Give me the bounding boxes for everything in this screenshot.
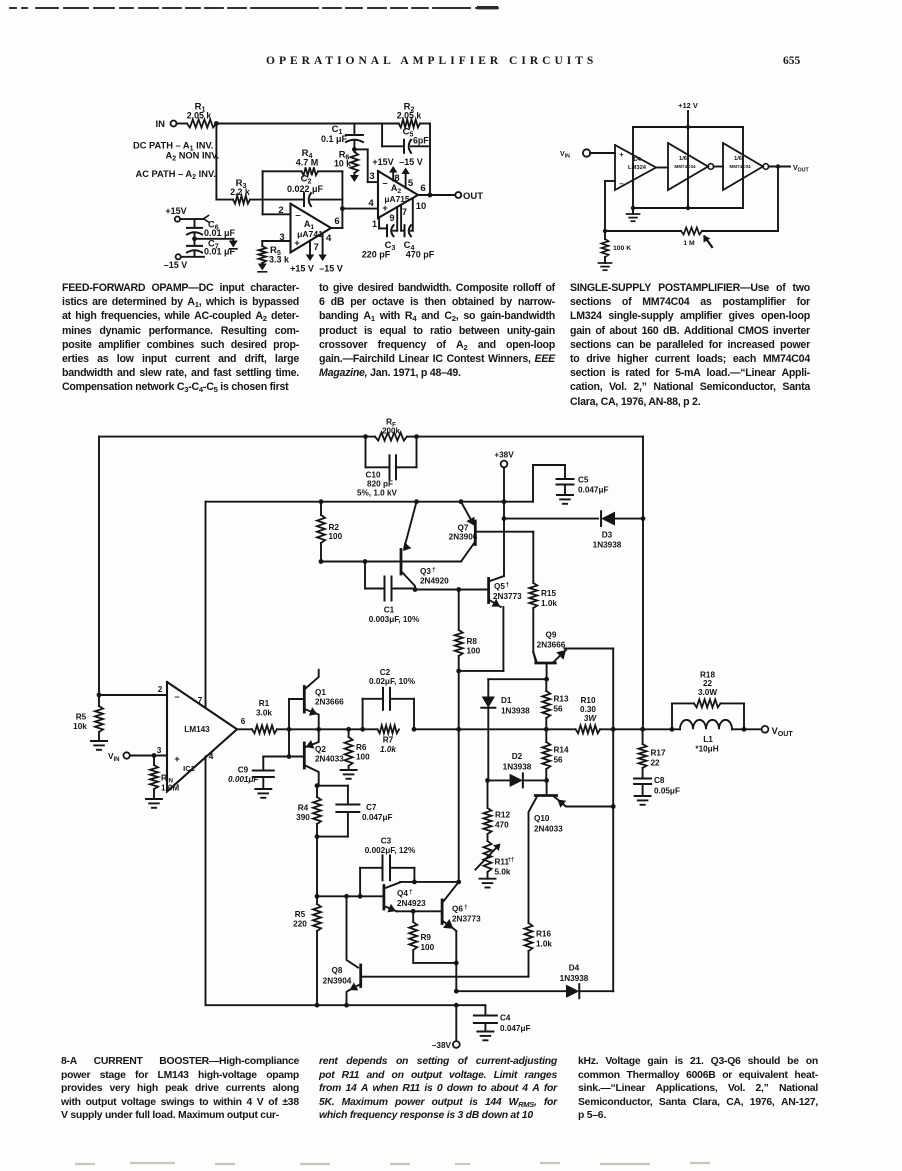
- svg-text:R12: R12: [495, 811, 510, 820]
- svg-text:R1: R1: [259, 699, 270, 708]
- svg-text:1/6: 1/6: [734, 156, 743, 162]
- svg-text:2N3904: 2N3904: [323, 977, 352, 986]
- svg-text:VIN​: VIN​: [560, 151, 570, 160]
- resistor R14 56: [545, 729, 547, 742]
- svg-text:3: 3: [369, 171, 374, 182]
- node +12V on top rail: [686, 125, 690, 129]
- svg-text:0.047μF: 0.047μF: [578, 486, 609, 495]
- svg-text:C5​: C5​: [403, 127, 414, 139]
- arrow tick on +15V wire: [204, 216, 209, 223]
- output line to L1: [643, 728, 672, 730]
- transistor Q3 2N4920: [400, 550, 403, 575]
- svg-text:6: 6: [241, 717, 246, 726]
- node D1 D2 R12: [485, 778, 490, 783]
- wire C1 node to A2 pin3: [354, 148, 367, 150]
- resistor R16 1.0k: [525, 923, 533, 951]
- svg-text:–38V: –38V: [432, 1041, 452, 1050]
- ground arrow below R5: [261, 263, 263, 264]
- resistor R2 100: [320, 502, 322, 515]
- wire to VOUT: [744, 728, 762, 730]
- node collector row column: [456, 880, 461, 885]
- resistor R9 100: [412, 911, 414, 922]
- svg-text:10: 10: [416, 201, 427, 212]
- wire VIN to pin3: [130, 755, 167, 757]
- svg-text:C7: C7: [366, 803, 377, 812]
- svg-text:1/6: 1/6: [679, 156, 688, 162]
- transistor Q2 2N4033: [303, 743, 306, 768]
- svg-text:C3: C3: [381, 837, 392, 846]
- svg-text:†: †: [464, 904, 468, 911]
- resistor R13 56: [545, 679, 547, 691]
- wire D1 row: [488, 678, 546, 680]
- feedback wire bottom: [702, 230, 778, 232]
- pin 7 column to rail: [205, 502, 207, 708]
- node Q10 emitter column: [611, 804, 616, 809]
- node R8 column output: [456, 727, 461, 732]
- svg-text:220: 220: [293, 920, 307, 929]
- svg-text:56: 56: [554, 756, 564, 765]
- node Q8 emitter rail: [344, 1003, 349, 1008]
- node rail Q7 emitter: [459, 499, 464, 504]
- feedback right column upper: [642, 437, 644, 519]
- svg-text:*10μH: *10μH: [695, 745, 718, 754]
- capacitor C4 0.047uF: [456, 1004, 485, 1006]
- wire Vin to op-amp: [590, 152, 615, 154]
- node C3 right: [412, 880, 417, 885]
- pin 1 leg of A2: [378, 218, 380, 229]
- svg-text:R6: R6: [356, 743, 367, 752]
- capacitor C7 0.047uF loop: [317, 785, 348, 787]
- svg-text:0.001μF: 0.001μF: [228, 775, 259, 784]
- svg-text:100: 100: [467, 647, 481, 656]
- node bottom rail left: [631, 206, 635, 210]
- node Q6 emitter R9: [454, 961, 459, 966]
- node rail R2: [319, 499, 324, 504]
- wire D4 row: [456, 990, 566, 992]
- svg-text:OUT: OUT: [463, 191, 483, 202]
- svg-text:4: 4: [368, 198, 374, 209]
- wire +15V: [180, 218, 204, 220]
- wire C2 to feedback right: [311, 199, 342, 201]
- supply terminal -38V: [455, 1005, 457, 1041]
- node L1 right: [742, 727, 747, 732]
- svg-text:Q10: Q10: [534, 814, 550, 823]
- pin 3 input wire: [262, 240, 290, 242]
- wire emitter node to D4 node: [455, 963, 457, 991]
- ground symbol below rail: [632, 208, 634, 214]
- wire R4 to base row: [316, 837, 318, 897]
- svg-text:Q7: Q7: [458, 524, 469, 533]
- resistor R5 10k input: [98, 695, 100, 706]
- svg-text:L1: L1: [703, 735, 713, 744]
- capacitor C3 220pF: [386, 225, 388, 236]
- svg-text:1 M: 1 M: [683, 240, 695, 247]
- wire +12V down: [687, 111, 689, 127]
- supply terminal -15V: [176, 254, 181, 259]
- wire opamp to inverter1: [656, 167, 668, 169]
- svg-text:56: 56: [554, 705, 564, 714]
- svg-text:R5: R5: [76, 713, 87, 722]
- wire to R2: [382, 123, 399, 125]
- svg-text:–: –: [619, 179, 623, 188]
- pin 4 column to bottom rail: [205, 757, 207, 1006]
- svg-text:6: 6: [334, 216, 339, 227]
- svg-text:4.7 M: 4.7 M: [296, 158, 319, 168]
- svg-text:0.047μF: 0.047μF: [362, 813, 393, 822]
- svg-text:+15 V: +15 V: [290, 264, 314, 274]
- ground arrow at C6-C7 node: [229, 241, 238, 248]
- capacitor C2 0.022uF: [303, 193, 305, 206]
- wire Q4 emitter to Q6 base: [397, 910, 443, 912]
- svg-text:Q8: Q8: [332, 966, 343, 975]
- node output-C5: [428, 193, 433, 198]
- svg-text:0.30: 0.30: [580, 705, 596, 714]
- transistor Q1 2N3666: [303, 687, 306, 713]
- svg-text:470 pF: 470 pF: [406, 250, 435, 260]
- output bubble inverter2: [763, 164, 769, 170]
- transistor Q10 2N4033: [546, 780, 548, 794]
- svg-text:R15: R15: [541, 589, 556, 598]
- svg-text:2: 2: [278, 205, 283, 216]
- svg-text:2.05 k: 2.05 k: [397, 110, 422, 120]
- svg-text:5.0k: 5.0k: [495, 868, 511, 877]
- op-amp 1/4 LM324: [615, 145, 656, 190]
- wire A1 output: [331, 227, 342, 229]
- svg-text:4: 4: [326, 233, 332, 244]
- rail +38V horizontal: [206, 501, 534, 503]
- wire Q7 base to R15: [475, 531, 533, 533]
- middle power column: [687, 127, 689, 208]
- svg-text:6pF: 6pF: [413, 136, 429, 146]
- right power column: [742, 127, 744, 208]
- pin 4 supply arrow: [322, 233, 324, 256]
- wire Q2 collector: [317, 785, 319, 787]
- node R5 bottom rail: [315, 1003, 320, 1008]
- svg-text:–: –: [174, 692, 179, 703]
- node feedback-100K: [603, 229, 607, 233]
- svg-text:D1: D1: [501, 696, 512, 705]
- node R13 R14: [544, 727, 549, 732]
- svg-text:2N4033: 2N4033: [315, 755, 344, 764]
- svg-text:0.047μF: 0.047μF: [500, 1024, 531, 1033]
- capacitor C6 0.01uF: [194, 219, 196, 228]
- node R2 bottom: [319, 559, 324, 564]
- svg-text:7: 7: [402, 207, 407, 217]
- wire pin2: [99, 694, 167, 696]
- ground below R11: [487, 872, 489, 879]
- inductor L1 10uH: [672, 728, 680, 730]
- svg-text:LM324: LM324: [628, 165, 647, 171]
- svg-text:4: 4: [209, 752, 214, 761]
- svg-text:MM74C04: MM74C04: [674, 164, 696, 169]
- resistor R4 4.7M: [302, 167, 319, 175]
- bottom rail wire: [633, 207, 743, 209]
- resistor R10 0.30 3W: [546, 728, 575, 730]
- svg-text:3.0W: 3.0W: [698, 688, 717, 697]
- svg-text:0.022 μF: 0.022 μF: [287, 184, 324, 194]
- transistor Q8 2N3904: [359, 965, 362, 987]
- resistor R6 100: [346, 727, 351, 732]
- pin 8 supply arrow +15V: [392, 171, 394, 181]
- resistor R18 22 3.0W loop: [671, 703, 673, 729]
- pin 7 leg of A2: [400, 205, 402, 231]
- svg-text:–15 V: –15 V: [319, 264, 343, 274]
- svg-text:2N3773: 2N3773: [493, 592, 522, 601]
- node R9 top: [411, 909, 416, 914]
- wire R1 to node: [277, 728, 289, 730]
- wire output pin6: [237, 728, 252, 730]
- svg-text:VOUT​: VOUT​: [793, 165, 809, 174]
- svg-text:2.05 k: 2.05 k: [187, 110, 212, 120]
- node -38V column rail: [454, 1003, 459, 1008]
- node Q1 Q2 base column: [287, 727, 292, 732]
- svg-text:390: 390: [296, 813, 310, 822]
- svg-text:†: †: [506, 582, 510, 589]
- svg-text:2.2 k: 2.2 k: [230, 187, 250, 197]
- svg-text:C1: C1: [384, 606, 395, 615]
- scan artifact faint bottom marks: [75, 1163, 710, 1164]
- svg-text:VOUT​: VOUT​: [772, 725, 794, 738]
- svg-text:2N3666: 2N3666: [315, 698, 344, 707]
- pin 2 stub of A1: [263, 213, 291, 215]
- wire R15 to Q9 collector: [532, 608, 534, 652]
- node C1 tap: [363, 559, 368, 564]
- svg-text:Q1: Q1: [315, 688, 326, 697]
- node C3 tap: [358, 894, 363, 899]
- wire Q9 emitter to column: [565, 648, 614, 650]
- capacitor C7 0.01uF: [194, 239, 196, 246]
- svg-text:1/4: 1/4: [633, 157, 642, 163]
- inverter 1/6 MM74C04 second: [723, 143, 763, 190]
- svg-text:D3: D3: [602, 531, 613, 540]
- svg-text:0.01 μF: 0.01 μF: [204, 247, 236, 257]
- capacitor C3 0.002uF loop: [359, 868, 361, 897]
- wire to Q1 base: [288, 699, 290, 729]
- diode D3 1N3938 wire: [504, 518, 598, 520]
- ground below RIN: [153, 789, 155, 799]
- node Q9 base D1 R13: [544, 677, 549, 682]
- ground below R6: [348, 766, 350, 770]
- node RF left: [363, 434, 368, 439]
- wire to ground arrow: [195, 238, 234, 240]
- svg-text:10 k: 10 k: [334, 159, 351, 169]
- svg-text:0.01 μF: 0.01 μF: [204, 228, 236, 238]
- wire to Q5 base: [415, 589, 489, 591]
- svg-text:μA715: μA715: [384, 194, 409, 204]
- op-amp IC1 LM143: [167, 682, 237, 792]
- wire down from R1 node: [215, 124, 217, 200]
- node C2 right R7: [412, 727, 417, 732]
- node D4 row: [454, 989, 459, 994]
- capacitor C5 0.047uF with ground: [532, 465, 534, 502]
- svg-text:5%, 1.0 kV: 5%, 1.0 kV: [357, 489, 398, 498]
- svg-text:††: ††: [508, 858, 515, 864]
- svg-text:1.0k: 1.0k: [541, 599, 557, 608]
- inverter 1/6 MM74C04 first: [668, 143, 708, 190]
- resistor R1 2.05k: [187, 120, 216, 128]
- feedback top wire with R4: [263, 170, 302, 172]
- svg-text:3W: 3W: [584, 714, 598, 723]
- svg-text:IN: IN: [156, 119, 166, 130]
- svg-text:0.002μF, 12%: 0.002μF, 12%: [365, 846, 416, 855]
- svg-text:R13: R13: [554, 695, 569, 704]
- resistor R5 220: [316, 896, 318, 904]
- svg-text:22: 22: [651, 759, 661, 768]
- node rail +38V column: [502, 499, 507, 504]
- wire +38V down: [503, 467, 505, 576]
- wire Q6 emitter column: [455, 931, 457, 963]
- node Q8 collector tap: [344, 894, 349, 899]
- svg-text:–: –: [382, 178, 387, 189]
- svg-text:3.3 k: 3.3 k: [269, 255, 290, 265]
- svg-text:2N3666: 2N3666: [537, 641, 566, 650]
- svg-text:R7: R7: [383, 736, 394, 745]
- wire Q4 collector row: [400, 881, 459, 883]
- wire up to inverting input: [604, 181, 606, 231]
- svg-text:820 pF: 820 pF: [367, 480, 393, 489]
- wire R2 tap down to C5: [381, 124, 383, 147]
- top rail wire: [633, 126, 743, 128]
- resistor R7 1.0k: [378, 725, 400, 733]
- feedback wire down: [777, 167, 779, 232]
- wire D1 through output line to D2 row: [487, 729, 489, 780]
- svg-text:C9: C9: [238, 766, 249, 775]
- node C2 left: [360, 727, 365, 732]
- feedback left column: [98, 437, 100, 695]
- svg-text:6: 6: [420, 183, 425, 194]
- svg-text:R16: R16: [536, 930, 551, 939]
- svg-text:LM143: LM143: [184, 725, 210, 734]
- ground below R5: [98, 732, 100, 741]
- capacitor C5 6pF: [403, 140, 405, 153]
- diode D3 1N3938: [601, 512, 615, 526]
- svg-text:R17: R17: [651, 749, 666, 758]
- svg-text:100 K: 100 K: [613, 245, 631, 252]
- ground below 100K: [604, 257, 606, 263]
- svg-text:C2: C2: [380, 668, 391, 677]
- resistor R6 10k: [351, 152, 359, 173]
- svg-text:3.0k: 3.0k: [256, 709, 272, 718]
- svg-text:1.0k: 1.0k: [380, 745, 396, 754]
- node A1 output to A2 pin4: [340, 206, 345, 211]
- svg-text:200k: 200k: [382, 426, 400, 435]
- svg-text:3: 3: [157, 746, 162, 755]
- feedback top wire right segment: [417, 436, 644, 438]
- svg-text:A2​ NON INV.: A2​ NON INV.: [166, 151, 220, 163]
- resistor R17 22: [642, 729, 644, 744]
- svg-text:+: +: [382, 203, 388, 214]
- pin 10 leg of A2: [411, 230, 413, 232]
- svg-text:1: 1: [372, 219, 377, 229]
- svg-text:+: +: [174, 754, 180, 765]
- node Q9 emitter column output: [611, 727, 616, 732]
- feedback loop left leg: [262, 171, 264, 214]
- svg-text:†: †: [409, 889, 413, 896]
- svg-text:Q9: Q9: [546, 631, 557, 640]
- output line to feedback column: [613, 728, 642, 730]
- node bottom rail middle: [686, 206, 690, 210]
- wire A2 output: [418, 194, 455, 196]
- capacitor C4 470pF: [404, 225, 406, 236]
- pin 9 leg of A2: [394, 230, 398, 232]
- op-amp A1 uA741: [291, 204, 332, 253]
- ground below C9: [255, 788, 271, 790]
- arrow below R6: [353, 173, 355, 175]
- transistor Q7 2N3906: [474, 521, 477, 545]
- svg-text:1N3938: 1N3938: [560, 974, 589, 983]
- svg-text:R4: R4: [298, 804, 309, 813]
- capacitor C2 0.02uF loop: [362, 699, 364, 730]
- wire: [177, 123, 188, 125]
- wire R16 to Q8 base: [361, 976, 529, 978]
- node Q2 collector R4 C7: [315, 783, 320, 788]
- node RF right: [414, 434, 419, 439]
- adjustment arrow mark: [705, 237, 713, 248]
- node rail Q3 emitter: [414, 499, 419, 504]
- scan artifact dashes top: [10, 7, 498, 9]
- svg-text:D4: D4: [569, 964, 580, 973]
- node Vout: [776, 164, 780, 168]
- resistor 1M: [681, 228, 702, 235]
- output bubble inverter1: [708, 164, 714, 170]
- capacitor C10 820pF loop: [365, 437, 367, 468]
- resistor RIN 1.0M: [153, 756, 155, 766]
- svg-text:+38V: +38V: [494, 451, 514, 460]
- svg-text:+12 V: +12 V: [678, 101, 698, 110]
- svg-text:2N4920: 2N4920: [420, 577, 449, 586]
- node D3 right column: [641, 516, 646, 521]
- ground below C8: [635, 795, 651, 797]
- capacitor C8 0.05uF: [634, 778, 651, 780]
- pin 5 supply arrow -15V: [405, 173, 407, 189]
- svg-text:0.003μF, 10%: 0.003μF, 10%: [369, 615, 420, 624]
- node C6-C7: [192, 236, 197, 241]
- svg-text:Q6: Q6: [452, 905, 463, 914]
- node emitters on output line: [316, 727, 321, 732]
- svg-text:–15 V: –15 V: [164, 260, 188, 270]
- output line main: [289, 728, 349, 730]
- svg-text:+15V: +15V: [165, 206, 186, 216]
- svg-text:+: +: [619, 150, 624, 159]
- svg-text:9: 9: [389, 213, 394, 223]
- wire to Q2 base: [288, 729, 290, 756]
- svg-text:MM74C04: MM74C04: [729, 164, 751, 169]
- wire output column to collector row: [458, 729, 460, 882]
- svg-text:C5: C5: [578, 476, 589, 485]
- svg-text:8: 8: [394, 173, 399, 184]
- resistor R12 470: [487, 780, 489, 808]
- wire inverter1 to inverter2: [714, 166, 723, 168]
- svg-text:1N3938: 1N3938: [501, 707, 530, 716]
- svg-text:Q2: Q2: [315, 745, 326, 754]
- node Q3 collector to Q5 base: [413, 587, 418, 592]
- node R8 top: [456, 587, 461, 592]
- svg-text:C10: C10: [365, 471, 380, 480]
- feedback right column lower: [642, 519, 644, 730]
- svg-text:†: †: [432, 567, 436, 574]
- svg-text:7: 7: [314, 242, 319, 253]
- svg-text:–15 V: –15 V: [399, 157, 423, 167]
- svg-text:1.0M: 1.0M: [161, 784, 179, 793]
- svg-text:R8: R8: [467, 637, 478, 646]
- resistor R15 1.0k: [529, 583, 537, 608]
- resistor R3 2.2k: [233, 196, 250, 204]
- svg-text:0.02μF, 10%: 0.02μF, 10%: [369, 677, 416, 686]
- pin 7 supply arrow: [309, 241, 311, 256]
- svg-text:5: 5: [408, 178, 414, 189]
- feedback top wire left segment: [99, 436, 366, 438]
- svg-text:R14: R14: [554, 746, 569, 755]
